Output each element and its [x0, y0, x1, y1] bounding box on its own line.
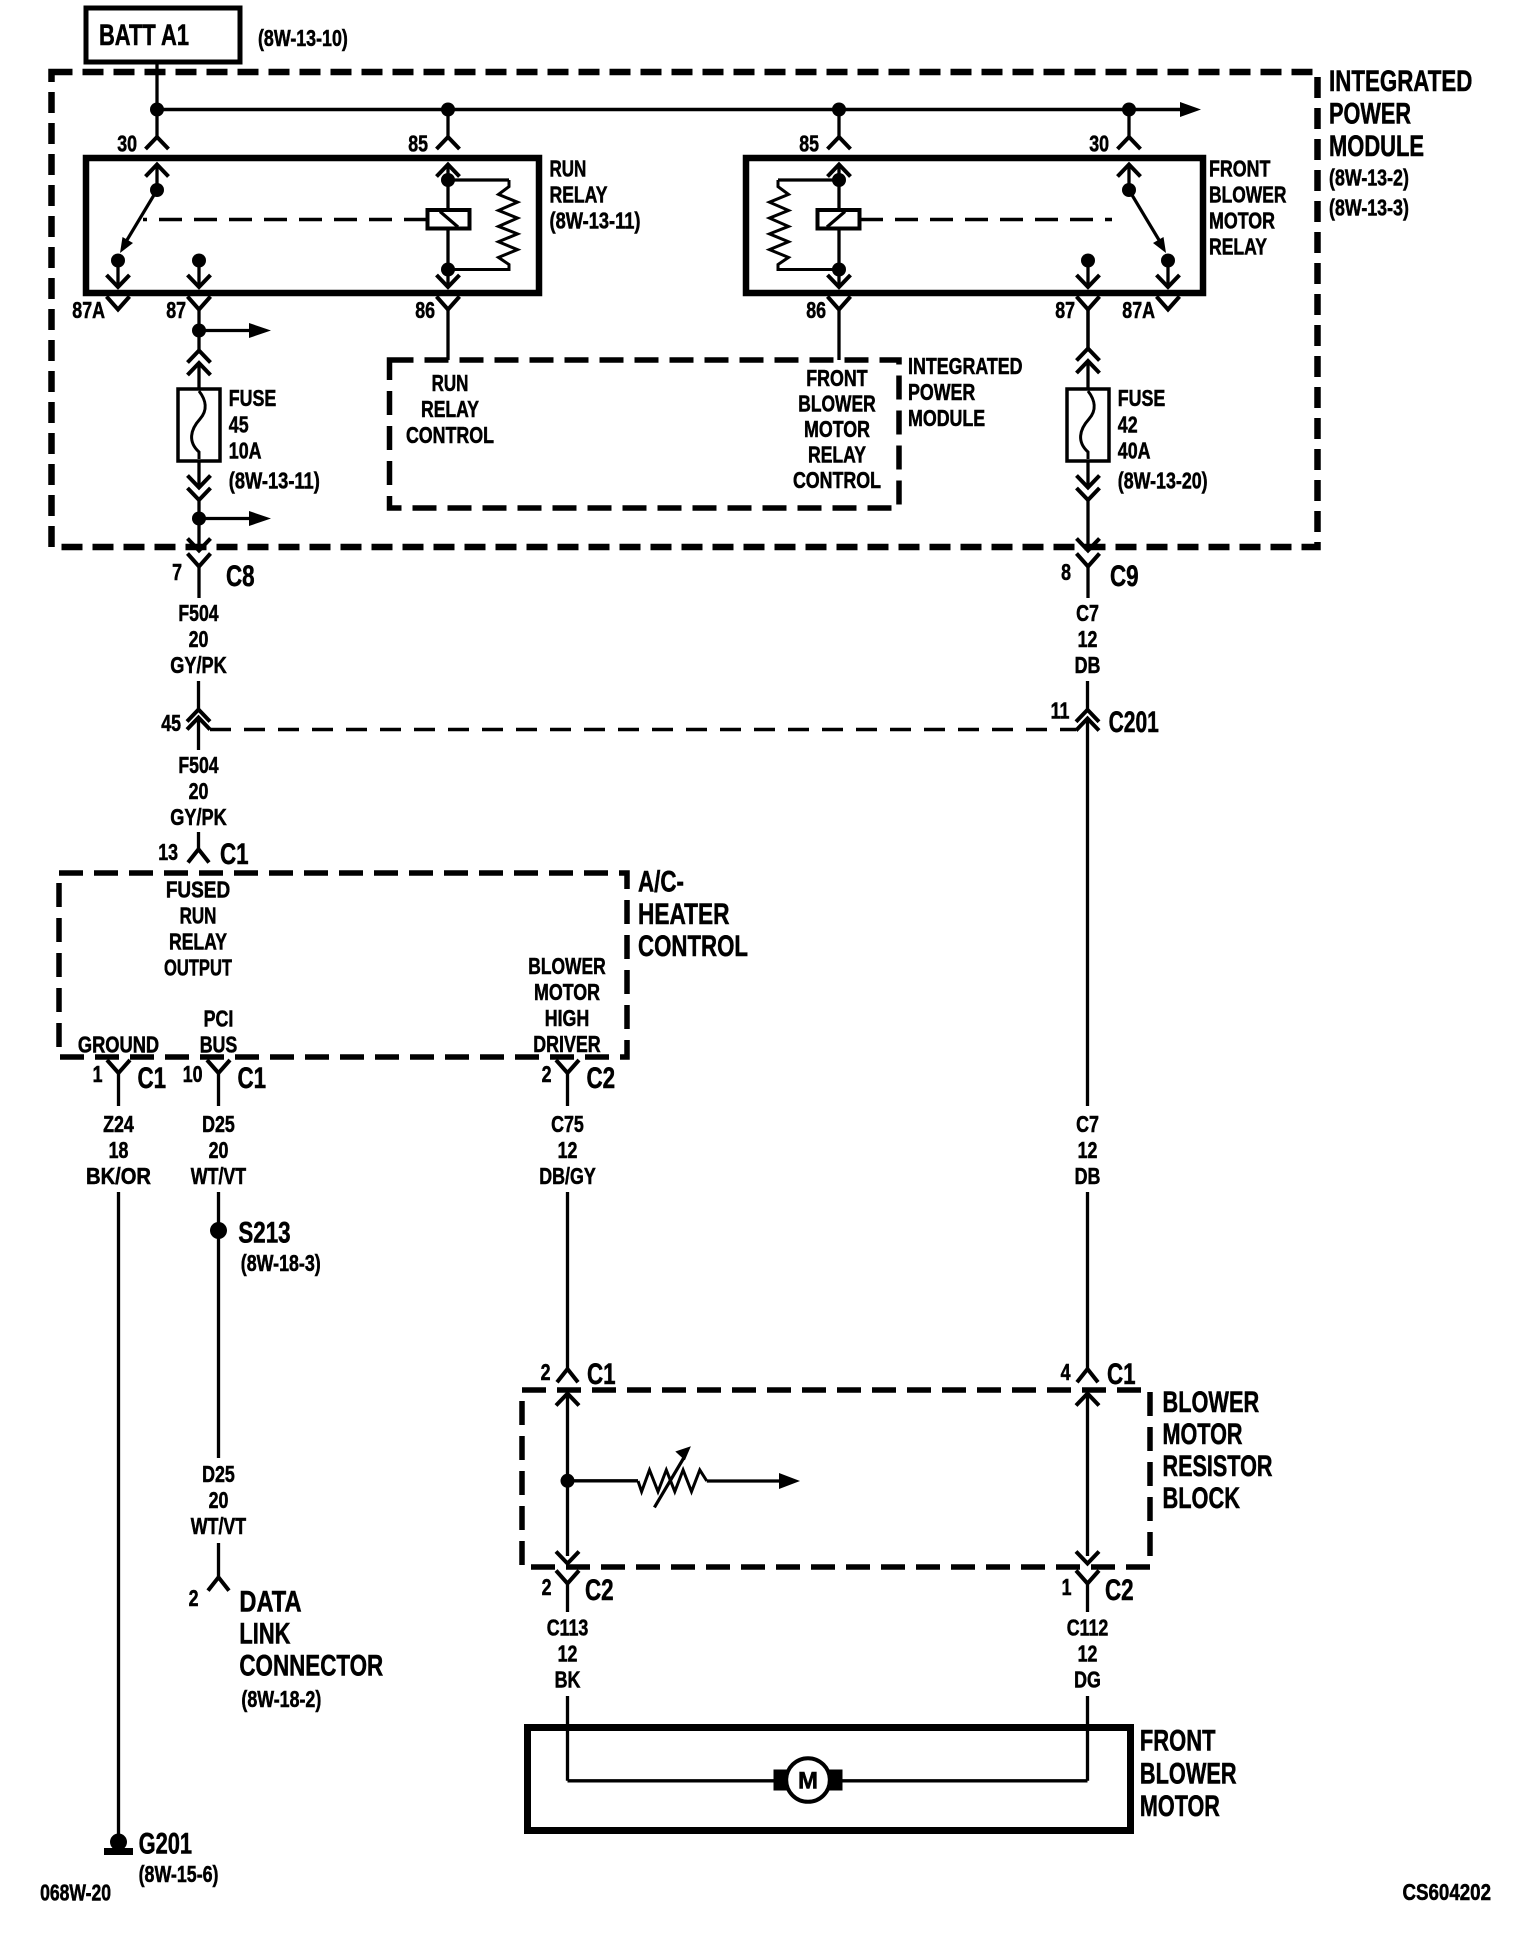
wire label D25 20 WT/VT lower	[191, 1461, 246, 1539]
wire label F504 20 GY/PK upper	[170, 600, 227, 678]
relay K2 FRONT BLOWER MOTOR RELAY box	[746, 158, 1203, 293]
svg-text:C1: C1	[238, 1062, 267, 1095]
svg-text:INTEGRATED: INTEGRATED	[1329, 65, 1472, 98]
connector name C201	[1109, 706, 1159, 739]
svg-text:2: 2	[542, 1061, 552, 1087]
svg-text:BLOWER: BLOWER	[1163, 1386, 1260, 1419]
svg-text:(8W-18-2): (8W-18-2)	[241, 1686, 321, 1712]
connector fork at right relay pin 30	[1118, 137, 1141, 149]
pin label 87 bottom	[1055, 297, 1075, 323]
svg-text:2: 2	[189, 1585, 199, 1611]
relay K2 pin 87A chevron	[1157, 275, 1180, 287]
relay K1 coil	[428, 165, 518, 288]
svg-text:DB/GY: DB/GY	[539, 1163, 596, 1189]
connector C8 at IPM edge	[188, 539, 211, 599]
svg-text:CONTROL: CONTROL	[406, 422, 494, 448]
connector chevron inside left relay pin 85	[437, 165, 460, 177]
svg-text:C113: C113	[547, 1614, 589, 1640]
svg-text:S213: S213	[238, 1216, 290, 1249]
wire label D25 20 WT/VT upper	[191, 1111, 246, 1189]
svg-text:FRONT: FRONT	[1209, 156, 1270, 182]
svg-text:Z24: Z24	[103, 1111, 134, 1137]
svg-text:C1: C1	[587, 1358, 616, 1391]
pin label 86 bottom	[806, 297, 826, 323]
svg-text:87A: 87A	[1122, 297, 1155, 323]
svg-text:RELAY: RELAY	[808, 442, 866, 468]
svg-text:40A: 40A	[1118, 438, 1151, 464]
svg-text:C2: C2	[1105, 1574, 1134, 1607]
connector fork DLC pin 2	[208, 1577, 229, 1590]
svg-text:(8W-13-20): (8W-13-20)	[1118, 468, 1208, 494]
connector fork resistor block top right	[1077, 1369, 1098, 1382]
svg-text:2: 2	[542, 1574, 552, 1600]
svg-text:86: 86	[415, 297, 435, 323]
IPM control dashed box	[390, 360, 900, 508]
svg-text:(8W-13-11): (8W-13-11)	[229, 468, 320, 494]
relay K2 name FRONT BLOWER MOTOR RELAY	[1209, 156, 1287, 260]
svg-text:C2: C2	[587, 1062, 616, 1095]
svg-text:20: 20	[209, 1487, 229, 1513]
fuse F45	[178, 389, 220, 461]
svg-text:FUSE: FUSE	[1118, 385, 1166, 411]
connector C9 at IPM edge	[1077, 539, 1100, 599]
junction and branch arrow at fuse 45 bottom	[192, 511, 271, 547]
connector fork high driver pin	[556, 1060, 579, 1106]
svg-text:DRIVER: DRIVER	[533, 1031, 601, 1057]
wire label C75 12 DB/GY	[539, 1111, 596, 1189]
svg-text:POWER: POWER	[1329, 97, 1411, 130]
pin label 2 resistor top	[541, 1359, 551, 1385]
svg-text:CONTROL: CONTROL	[638, 930, 748, 963]
connector chevron inside resistor top right	[1076, 1394, 1099, 1406]
relay K2 switch	[1122, 165, 1175, 288]
svg-text:MOTOR: MOTOR	[1140, 1790, 1220, 1823]
sheet number 068W-20	[40, 1880, 111, 1906]
svg-text:85: 85	[799, 131, 819, 157]
svg-text:FUSE: FUSE	[229, 385, 276, 411]
svg-text:(8W-13-3): (8W-13-3)	[1329, 194, 1409, 220]
pin label 87A bottom	[72, 297, 105, 323]
reference label (8W-13-10)	[258, 25, 348, 51]
pin label 45	[161, 710, 181, 736]
reference label (8W-18-3)	[241, 1250, 321, 1276]
pin name BLOWER MOTOR HIGH DRIVER	[528, 953, 606, 1057]
relay K2 coil	[770, 165, 860, 288]
junction J2	[441, 103, 455, 117]
svg-text:C8: C8	[226, 560, 255, 593]
inline connector above fuse 42	[1077, 349, 1100, 391]
relay K1 pin 86 chevron	[437, 275, 460, 287]
wire drop to left relay pin 85	[446, 110, 449, 138]
svg-text:(8W-18-3): (8W-18-3)	[241, 1250, 321, 1276]
blower motor resistor block dashed box	[522, 1390, 1150, 1567]
svg-text:DG: DG	[1074, 1666, 1101, 1692]
svg-text:20: 20	[189, 626, 209, 652]
svg-text:(8W-13-11): (8W-13-11)	[550, 208, 641, 234]
connector fork pin 13	[188, 849, 209, 862]
svg-text:C112: C112	[1067, 1614, 1109, 1640]
box name FRONT BLOWER MOTOR	[1140, 1725, 1237, 1824]
inline connector below fuse 42	[1077, 476, 1100, 548]
svg-text:30: 30	[1089, 131, 1109, 157]
svg-text:RUN: RUN	[550, 155, 587, 181]
svg-text:CONNECTOR: CONNECTOR	[239, 1650, 383, 1683]
svg-text:GROUND: GROUND	[78, 1032, 159, 1058]
A/C-heater control dashed box	[59, 873, 627, 1057]
svg-text:MOTOR: MOTOR	[534, 979, 600, 1005]
svg-text:86: 86	[806, 297, 826, 323]
pin name RUN RELAY CONTROL	[406, 370, 494, 448]
junction J4	[1122, 103, 1136, 117]
reference label (8W-18-2)	[241, 1686, 321, 1712]
svg-text:11: 11	[1051, 698, 1070, 724]
svg-text:10A: 10A	[229, 438, 262, 464]
pin label 2 DLC	[189, 1585, 199, 1611]
svg-text:BLOWER: BLOWER	[528, 953, 606, 979]
svg-text:D25: D25	[202, 1461, 235, 1487]
svg-text:FRONT: FRONT	[1140, 1725, 1216, 1758]
svg-text:HEATER: HEATER	[638, 898, 730, 931]
svg-text:PCI: PCI	[204, 1006, 234, 1032]
svg-text:INTEGRATED: INTEGRATED	[908, 353, 1023, 379]
B+ bus wire with arrow	[157, 102, 1201, 117]
wire D25 to splice	[217, 1192, 220, 1458]
junction at variable resistor	[561, 1474, 575, 1488]
resistor block right wire	[1086, 1394, 1089, 1557]
connector chevron inside right relay pin 85	[828, 165, 851, 177]
svg-text:RELAY: RELAY	[550, 182, 608, 208]
pin label 30	[117, 131, 137, 157]
svg-text:RELAY: RELAY	[421, 396, 479, 422]
svg-text:G201: G201	[139, 1827, 193, 1860]
svg-text:MOTOR: MOTOR	[1163, 1418, 1243, 1451]
connector fork resistor block bottom right	[1076, 1571, 1099, 1613]
connector name C1 pin13	[220, 838, 249, 871]
connector chevron inside resistor top left	[556, 1394, 579, 1406]
svg-text:7: 7	[172, 559, 182, 585]
connector chevron inside right relay pin 30	[1118, 165, 1141, 177]
svg-text:30: 30	[117, 131, 137, 157]
svg-text:CONTROL: CONTROL	[793, 467, 881, 493]
module name INTEGRATED POWER MODULE	[1329, 65, 1472, 221]
relay K1 pin 87 stub	[188, 254, 211, 288]
svg-text:OUTPUT: OUTPUT	[164, 954, 232, 980]
svg-text:C7: C7	[1076, 600, 1099, 626]
connector fork below relay pin right 87A	[1157, 297, 1180, 310]
pin name FRONT BLOWER MOTOR RELAY CONTROL	[793, 365, 881, 493]
svg-text:1: 1	[93, 1061, 103, 1087]
pin label 4 resistor top	[1061, 1359, 1071, 1385]
svg-text:1: 1	[1062, 1574, 1072, 1600]
svg-text:DATA: DATA	[239, 1586, 301, 1619]
svg-text:4: 4	[1061, 1359, 1071, 1385]
svg-text:20: 20	[189, 778, 209, 804]
svg-text:2: 2	[541, 1359, 551, 1385]
connector name C8	[226, 560, 255, 593]
wire from pin right 86	[837, 310, 840, 361]
junction J1	[150, 103, 164, 117]
pin label 11	[1051, 698, 1070, 724]
pin label 7	[172, 559, 182, 585]
wire label C7 12 DB upper	[1075, 600, 1101, 678]
svg-text:BLOWER: BLOWER	[1140, 1757, 1237, 1790]
wire to data link connector	[217, 1543, 220, 1577]
svg-text:87: 87	[166, 297, 186, 323]
svg-text:MODULE: MODULE	[908, 405, 985, 431]
wire label C112 12 DG	[1067, 1614, 1109, 1692]
svg-text:BATT A1: BATT A1	[99, 19, 189, 52]
relay K2 linkage dashed line	[860, 218, 1112, 222]
svg-text:GY/PK: GY/PK	[170, 652, 227, 678]
svg-text:RUN: RUN	[432, 370, 469, 396]
inline connector below fuse 45	[188, 476, 211, 519]
connector name C1 pci bus pin	[238, 1062, 267, 1095]
wire drop to left relay pin 30	[155, 110, 158, 138]
wire BK into motor	[568, 1696, 776, 1781]
resistor block left wire	[566, 1394, 569, 1557]
front blower motor box	[528, 1728, 1131, 1831]
wire C75 to resistor block	[566, 1192, 569, 1369]
svg-text:10: 10	[183, 1061, 203, 1087]
connector fork ground pin	[107, 1060, 130, 1106]
connector chevron resistor bottom left	[556, 1552, 579, 1564]
svg-text:MOTOR: MOTOR	[804, 416, 870, 442]
svg-text:87A: 87A	[72, 297, 105, 323]
connector name C2 resistor bottom left	[585, 1574, 614, 1607]
svg-text:WT/VT: WT/VT	[191, 1513, 246, 1539]
ground name G201	[139, 1827, 193, 1860]
svg-text:MODULE: MODULE	[1329, 130, 1424, 163]
pin label 85	[799, 131, 819, 157]
pin label 85	[408, 131, 428, 157]
wire C7 to resistor block	[1086, 719, 1089, 1370]
pin name GROUND	[78, 1032, 159, 1058]
svg-text:45: 45	[229, 411, 249, 437]
svg-text:85: 85	[408, 131, 428, 157]
svg-text:C9: C9	[1110, 560, 1139, 593]
svg-text:18: 18	[109, 1137, 129, 1163]
wire from pin right 87	[1086, 310, 1089, 349]
svg-text:12: 12	[558, 1137, 578, 1163]
pin label 1 resistor bottom	[1062, 1574, 1072, 1600]
svg-text:RESISTOR: RESISTOR	[1163, 1450, 1273, 1483]
connector fork below relay pin right 87	[1077, 297, 1100, 310]
svg-text:M: M	[798, 1768, 818, 1795]
wire label Z24 18 BK/OR	[86, 1111, 151, 1189]
pin label 13	[158, 839, 178, 865]
dashed inline link C201	[210, 728, 1076, 732]
svg-text:HIGH: HIGH	[545, 1005, 590, 1031]
svg-text:C2: C2	[585, 1574, 614, 1607]
svg-text:WT/VT: WT/VT	[191, 1163, 246, 1189]
connector fork at right relay pin 85	[828, 137, 851, 149]
battery feed box BATT A1	[86, 8, 240, 62]
relay K1 switch	[111, 165, 164, 288]
svg-text:12: 12	[1078, 626, 1098, 652]
svg-text:C1: C1	[138, 1062, 167, 1095]
svg-text:C1: C1	[1107, 1358, 1136, 1391]
svg-text:D25: D25	[202, 1111, 235, 1137]
wire from C7 label to C201	[1086, 681, 1089, 710]
svg-text:F504: F504	[178, 752, 218, 778]
connector name C2 high driver pin	[587, 1062, 616, 1095]
pin label 87A bottom	[1122, 297, 1155, 323]
svg-text:RUN: RUN	[180, 903, 217, 929]
relay K1 name RUN RELAY (8W-13-11)	[550, 155, 641, 233]
wire from pin left 87	[197, 310, 200, 331]
svg-text:A/C-: A/C-	[638, 866, 684, 899]
svg-text:8: 8	[1061, 559, 1071, 585]
svg-text:GY/PK: GY/PK	[170, 804, 227, 830]
variable resistor	[568, 1446, 801, 1507]
connector fork below relay pin right 86	[828, 297, 851, 310]
svg-text:F504: F504	[178, 600, 218, 626]
svg-text:(8W-15-6): (8W-15-6)	[139, 1861, 219, 1887]
svg-text:(8W-13-2): (8W-13-2)	[1329, 165, 1409, 191]
svg-text:LINK: LINK	[239, 1618, 290, 1651]
motor M1	[774, 1758, 843, 1802]
svg-text:BK/OR: BK/OR	[86, 1163, 151, 1189]
inline connector C201 left half	[187, 710, 210, 751]
svg-text:C1: C1	[220, 838, 249, 871]
fuse F42 label	[1118, 385, 1208, 493]
svg-text:BLOWER: BLOWER	[798, 390, 876, 416]
connector fork resistor block top left	[557, 1369, 578, 1382]
relay K2 pin 87 stub	[1077, 254, 1100, 288]
wire from pin left 86	[446, 310, 449, 361]
svg-text:BLOCK: BLOCK	[1163, 1482, 1241, 1515]
integrated power module outer dashed box	[52, 72, 1318, 547]
svg-text:MOTOR: MOTOR	[1209, 208, 1275, 234]
pin label 8	[1061, 559, 1071, 585]
connector fork below relay pin left 86	[437, 297, 460, 310]
wire DG into motor	[841, 1696, 1088, 1781]
pin label 10 pci bus pin	[183, 1061, 203, 1087]
connector fork C201 right half	[1076, 710, 1099, 731]
pin label 30	[1089, 131, 1109, 157]
svg-text:87: 87	[1055, 297, 1075, 323]
svg-text:FRONT: FRONT	[806, 365, 867, 391]
wire label C113 12 BK	[547, 1614, 589, 1692]
svg-text:12: 12	[1078, 1640, 1098, 1666]
inline connector above fuse 45	[188, 351, 211, 391]
connector chevron inside left relay pin 30	[146, 165, 169, 177]
svg-text:BK: BK	[555, 1666, 581, 1692]
connector name C9	[1110, 560, 1139, 593]
svg-text:BUS: BUS	[200, 1032, 238, 1058]
svg-text:13: 13	[158, 839, 178, 865]
box name BLOWER MOTOR RESISTOR BLOCK	[1163, 1386, 1273, 1515]
svg-text:20: 20	[209, 1137, 229, 1163]
svg-text:FUSED: FUSED	[166, 877, 230, 903]
pin name FUSED RUN RELAY OUTPUT	[164, 877, 232, 981]
wire label F504 20 GY/PK lower	[170, 752, 227, 830]
junction J3	[832, 103, 846, 117]
svg-text:12: 12	[558, 1640, 578, 1666]
terminal name DATA LINK CONNECTOR	[239, 1586, 383, 1683]
connector fork resistor block bottom left	[556, 1571, 579, 1613]
svg-text:C201: C201	[1109, 706, 1159, 739]
fuse F42	[1067, 389, 1109, 461]
svg-text:CS604202: CS604202	[1403, 1879, 1492, 1905]
pin name PCI BUS	[200, 1006, 238, 1058]
splice name S213	[238, 1216, 290, 1249]
fuse F45 label	[229, 385, 320, 493]
wire to connector C201 left	[197, 681, 200, 710]
ground wire Z24	[117, 1192, 120, 1835]
wire from BATT A1 to bus	[155, 62, 158, 110]
svg-text:DB: DB	[1075, 652, 1101, 678]
pin label 2 resistor bottom	[542, 1574, 552, 1600]
pin label 86 bottom	[415, 297, 435, 323]
wire drop to right relay pin 30	[1127, 110, 1130, 138]
connector name C2 resistor bottom right	[1105, 1574, 1134, 1607]
drawing number CS604202	[1403, 1879, 1492, 1905]
connector name C1 ground pin	[138, 1062, 167, 1095]
svg-text:42: 42	[1118, 411, 1138, 437]
svg-text:068W-20: 068W-20	[40, 1880, 111, 1906]
svg-text:C75: C75	[551, 1111, 584, 1137]
wire drop to right relay pin 85	[837, 110, 840, 138]
relay K1 RUN RELAY box	[86, 158, 539, 293]
svg-text:POWER: POWER	[908, 379, 976, 405]
wire from right 87 to fuse 42	[1086, 310, 1089, 349]
pin label 2 high driver pin	[542, 1061, 552, 1087]
ground symbol G201	[104, 1834, 133, 1856]
svg-text:45: 45	[161, 710, 181, 736]
wire label C7 12 DB lower	[1075, 1111, 1101, 1189]
connector fork at left relay pin 30	[146, 137, 169, 149]
svg-text:C7: C7	[1076, 1111, 1099, 1137]
svg-text:RELAY: RELAY	[169, 929, 227, 955]
connector name C1 resistor top right	[1107, 1358, 1136, 1391]
junction and branch arrow at fuse 45 top	[192, 323, 271, 351]
relay K2 pin 86 chevron	[828, 275, 851, 287]
connector fork at left relay pin 85	[437, 137, 460, 149]
connector fork pci bus pin	[207, 1060, 230, 1106]
svg-text:BLOWER: BLOWER	[1209, 182, 1287, 208]
svg-text:DB: DB	[1075, 1163, 1101, 1189]
pin label 1 ground pin	[93, 1061, 103, 1087]
connector fork below relay pin left 87A	[107, 297, 130, 310]
wire below fuse 45	[197, 461, 200, 488]
reference label (8W-15-6)	[139, 1861, 219, 1887]
svg-text:12: 12	[1078, 1137, 1098, 1163]
inner label INTEGRATED POWER MODULE	[908, 353, 1023, 431]
wire to A/C heater control	[197, 832, 200, 849]
relay K1 pin 87A chevron	[107, 275, 130, 287]
svg-text:RELAY: RELAY	[1209, 234, 1267, 260]
pin label 87 bottom	[166, 297, 186, 323]
box name A/C- HEATER CONTROL	[638, 866, 748, 963]
relay K1 linkage dashed line	[143, 218, 427, 222]
wire below fuse 42	[1086, 461, 1089, 488]
connector chevron resistor bottom right	[1076, 1552, 1099, 1564]
svg-text:(8W-13-10): (8W-13-10)	[258, 25, 348, 51]
connector name C1 resistor top left	[587, 1358, 616, 1391]
splice S213	[210, 1222, 227, 1239]
connector fork below relay pin left 87	[188, 297, 211, 310]
